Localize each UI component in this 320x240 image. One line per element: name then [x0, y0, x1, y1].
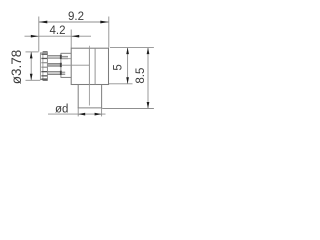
- dimension 5 and 8.5 top extension: [110, 47, 154, 49]
- dimension 4.2 extension line right: [70, 30, 72, 49]
- arrow 4.2 right outside: [71, 35, 79, 38]
- collar top line: [61, 52, 71, 54]
- contact bar 3 top edge: [47, 71, 60, 73]
- ring band 1: [41, 54, 47, 55]
- ring band 2: [41, 58, 47, 59]
- center pin bar fill: [47, 64, 60, 67]
- tube right wall: [101, 85, 103, 109]
- dimension dia-d line: [48, 113, 106, 115]
- arrow dia-d right: [95, 113, 102, 116]
- center pin bottom edge: [47, 65, 60, 67]
- contact bar 1 step band fill: [62, 57, 68, 59]
- collar front face: [60, 53, 62, 78]
- dimension 9.2 extension line left: [38, 17, 40, 52]
- svg-text:ø3.78: ø3.78: [9, 50, 24, 85]
- dimension 5 line: [127, 48, 129, 84]
- contact bar 1 tick: [60, 55, 62, 59]
- contact bar 3 fill: [47, 72, 60, 75]
- ring section crest: [43, 52, 48, 81]
- body outline: [71, 48, 108, 84]
- dimension dia3.78 extension top: [26, 51, 39, 53]
- contact bar 1 step bottom edge: [62, 58, 68, 60]
- ring band 7: [41, 78, 47, 79]
- ring crest top edge: [43, 51, 47, 53]
- arrow 5 down: [126, 77, 129, 84]
- arrow 8.5 down: [147, 102, 150, 109]
- contact bar 1 step top edge: [62, 55, 68, 57]
- ring band 4: [41, 67, 47, 68]
- arrow dia3.78 down: [30, 74, 33, 81]
- contact bar 1 top edge: [47, 55, 60, 57]
- ring band 5: [41, 71, 47, 72]
- dimension dia-d extension right: [101, 108, 103, 116]
- dimension 8.5 line: [147, 48, 149, 109]
- collar bottom line: [61, 76, 71, 78]
- dimension dia3.78 line: [30, 52, 32, 80]
- body interior line A: [88, 48, 90, 84]
- dimension 8.5 bottom extension: [102, 108, 154, 110]
- ring section outer: [40, 53, 47, 80]
- svg-text:4.2: 4.2: [50, 25, 66, 37]
- contact bar 3 step band fill: [62, 72, 65, 74]
- arrow 9.2 right: [100, 21, 109, 24]
- contact bar 1 fill: [47, 56, 60, 58]
- svg-text:5: 5: [113, 64, 125, 70]
- svg-text:ød: ød: [55, 103, 68, 115]
- contact bar 1 tail: [68, 58, 71, 60]
- contact bar 3 tick: [60, 71, 62, 75]
- contact bar 3 step bottom edge: [62, 73, 65, 75]
- contact bar 3 step top edge: [62, 71, 65, 73]
- arrow dia-d left: [78, 113, 85, 116]
- ring band 3: [41, 62, 47, 63]
- dimension 9.2 line: [39, 21, 109, 23]
- center pin tick: [60, 63, 62, 67]
- ring band 6: [41, 75, 47, 76]
- dimension dia-d extension left: [77, 108, 79, 116]
- dimension dia3.78 extension bottom: [26, 79, 41, 81]
- arrow dia3.78 up: [30, 52, 33, 59]
- arrow 9.2 left: [39, 21, 48, 24]
- dimension 9.2 extension line right: [108, 17, 110, 48]
- contact bar 3 bottom edge: [47, 74, 60, 76]
- arrow 5 up: [126, 48, 129, 55]
- center pin top edge: [47, 63, 60, 65]
- arrow 4.2 left outside: [31, 35, 39, 38]
- dimension 4.2 line: [25, 35, 92, 37]
- axis line to body: [62, 64, 90, 66]
- svg-text:8.5: 8.5: [135, 68, 147, 84]
- svg-text:9.2: 9.2: [68, 11, 84, 23]
- arrow 8.5 up: [147, 48, 150, 55]
- tube centerline: [88, 85, 90, 106]
- body interior line A stub above: [88, 46, 90, 48]
- body interior line B: [94, 48, 96, 84]
- contact bar 1 bottom edge: [47, 57, 60, 59]
- dimension 5 bottom extension: [109, 83, 133, 85]
- tube bottom: [78, 107, 102, 109]
- ring crest bottom edge: [43, 79, 47, 81]
- tube left wall: [77, 85, 79, 109]
